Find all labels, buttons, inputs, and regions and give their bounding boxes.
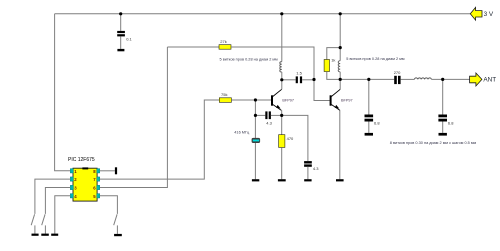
wire pin 8 to ground	[100, 170, 115, 172]
svg-text:BFP97: BFP97	[341, 99, 353, 103]
pin 3 pad	[70, 185, 73, 189]
wire C5 top lead	[368, 79, 370, 114]
svg-text:PIC 12F675: PIC 12F675	[68, 157, 95, 163]
node Q2 collector	[339, 78, 342, 81]
wire 75k to Q1 base node	[231, 99, 255, 101]
svg-text:270: 270	[394, 70, 401, 75]
wire base node down to crystal	[254, 100, 256, 179]
wire 27k left lead	[167, 46, 219, 48]
wire keying line from PIC pin 6 up	[100, 47, 168, 188]
switch S2	[42, 214, 45, 225]
wire VDD left drop to PIC pin 1	[55, 14, 71, 171]
wire L2 bottom	[339, 72, 341, 80]
svg-text:1.5: 1.5	[296, 71, 302, 76]
resistor R1 27k	[219, 45, 231, 50]
wire output line	[340, 78, 394, 80]
node base-cap junction	[254, 114, 257, 117]
wire C4 to ground	[307, 167, 309, 180]
pin 7 pad	[97, 177, 100, 181]
wire C7 bottom lead	[442, 122, 444, 133]
svg-text:ANT: ANT	[483, 76, 496, 83]
node Q1 emitter	[280, 114, 283, 117]
node ANT shunt	[441, 78, 444, 81]
wire tank to C3	[282, 79, 296, 81]
resistor R2 75k	[219, 98, 231, 103]
wire emitter down	[281, 110, 283, 134]
port 3V arrow	[470, 7, 482, 20]
wire collector up	[339, 79, 341, 89]
svg-text:6.8: 6.8	[448, 121, 454, 126]
wire 3V top rail	[55, 13, 471, 15]
svg-text:416 МГц: 416 МГц	[234, 130, 250, 134]
ground S3	[114, 234, 122, 236]
wire pin 2 to switch S1	[35, 179, 70, 214]
wire feedback cap right lead	[271, 114, 282, 116]
inductor L3	[414, 78, 431, 80]
svg-text:6.8: 6.8	[374, 121, 380, 126]
node stage2 top split	[339, 46, 342, 49]
capacitor C5 6.8	[365, 115, 374, 122]
wire S2 lower stub	[44, 225, 46, 233]
wire 27k to Q2 base	[231, 47, 330, 101]
crystal ZQ1 SAW resonator	[252, 138, 261, 143]
pin 5 pad	[97, 194, 100, 198]
resistor R4 1k	[324, 60, 329, 72]
wire C7 top lead	[442, 79, 444, 114]
svg-text:8 витков пров 0.30 на диам 2 м: 8 витков пров 0.30 на диам 2 мм с шагом …	[390, 141, 477, 145]
ground C7	[439, 133, 447, 136]
node rail junction C1	[119, 12, 122, 15]
wire S1 lower stub	[34, 225, 36, 233]
pin 2 pad	[70, 177, 73, 181]
capacitor C1 0.1	[117, 31, 125, 37]
wire C1 top lead	[120, 14, 122, 31]
svg-text:5 витков пров 0.28 на диам 2 м: 5 витков пров 0.28 на диам 2 мм	[220, 57, 279, 61]
wire L1 top lead	[281, 14, 283, 62]
wire C6 to L3	[401, 78, 415, 80]
capacitor C7 6.8	[438, 115, 447, 122]
wire R3 to ground	[281, 147, 283, 179]
wire emitter bypass	[282, 115, 308, 161]
pin 4 pad	[70, 194, 73, 198]
wire L3 to ANT	[431, 78, 469, 80]
ground C1	[117, 49, 124, 51]
svg-text:BFP97: BFP97	[282, 99, 294, 103]
node rail junction L1 branch	[280, 12, 283, 15]
wire pin 4 to ground	[55, 196, 71, 234]
ground R3	[278, 179, 286, 181]
svg-text:470: 470	[287, 136, 294, 141]
wire feedback cap left lead	[255, 114, 265, 116]
switch S3	[114, 214, 117, 225]
op IC U1 PIC 12F675	[73, 167, 97, 201]
ground pin 8	[115, 167, 117, 174]
wire Q2 emitter to ground	[339, 110, 341, 179]
ground pin 4	[51, 234, 58, 236]
svg-text:27k: 27k	[220, 39, 226, 44]
svg-text:5 витков пров 0.28 на диам 2 м: 5 витков пров 0.28 на диам 2 мм	[346, 57, 405, 61]
wire C3 to junction	[302, 79, 314, 81]
capacitor C3 1.5	[296, 76, 302, 83]
capacitor C4 4.3	[304, 161, 312, 167]
wire Q1 base	[255, 99, 271, 101]
wire 1k top branch	[327, 48, 340, 60]
switch S1	[31, 214, 34, 225]
wire from PIC pin 7 up	[100, 100, 220, 179]
svg-text:3 V: 3 V	[484, 11, 494, 18]
wire C5 bottom lead	[368, 122, 370, 133]
node Q1 base	[254, 98, 257, 101]
svg-text:75k: 75k	[221, 92, 227, 97]
capacitor C6 270	[394, 76, 400, 84]
wire 1k bottom branch	[327, 72, 340, 80]
svg-text:0.1: 0.1	[126, 37, 132, 42]
wire pin 3 to switch S2	[45, 188, 70, 214]
node bypass C5	[367, 78, 370, 81]
node rail junction stage2 branch	[339, 12, 342, 15]
ground C5	[365, 133, 373, 136]
wire C1 bottom lead	[120, 36, 122, 49]
inductor L1	[280, 62, 282, 72]
node junction cap1.5 / bias	[312, 78, 315, 81]
ground S1	[32, 234, 39, 236]
svg-text:4.3: 4.3	[266, 120, 272, 125]
ground Q2 emitter	[336, 179, 344, 181]
ground crystal	[252, 179, 259, 181]
ground C4	[304, 179, 311, 181]
transistor Q2 BFP97	[330, 89, 341, 110]
capacitor C2 4.3	[265, 111, 271, 119]
ground S2	[41, 234, 49, 236]
resistor R3 470	[279, 135, 285, 148]
transistor Q1 BFP97	[271, 89, 282, 110]
wire S3 lower stub	[116, 225, 118, 234]
node Q1 collector tank	[280, 78, 283, 81]
svg-text:1k: 1k	[331, 58, 335, 63]
pin 6 pad	[97, 185, 100, 189]
pin 8 pad	[97, 169, 100, 173]
port ANT arrow	[470, 73, 482, 86]
svg-text:4.3: 4.3	[313, 166, 319, 171]
wire stage2 supply drop	[339, 14, 341, 61]
wire L1 bottom to collector	[281, 72, 283, 89]
pin 1 pad	[70, 169, 73, 173]
inductor L2	[338, 61, 340, 72]
wire pin 5 to switch S3	[100, 196, 118, 214]
